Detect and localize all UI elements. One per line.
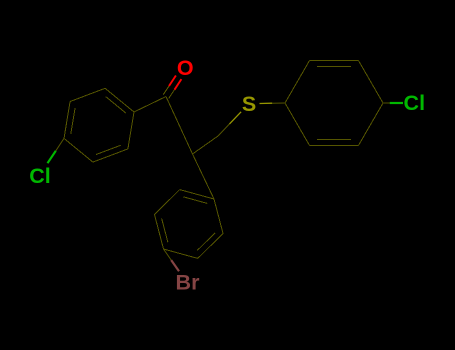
- ring3 aromatic inner line 1: [197, 233, 215, 251]
- ring1 aromatic inner line 3: [71, 108, 75, 134]
- svg-text:Cl: Cl: [404, 91, 426, 115]
- ring3 C-C bond 4: [155, 190, 180, 215]
- ring1 C-C bond 5: [105, 88, 134, 112]
- ring3 C-C bond 1: [198, 233, 223, 258]
- ring2 C-C bond 1: [310, 60, 359, 62]
- ring1 C-C bond 3: [64, 102, 70, 139]
- ring3 C-C bond 0: [214, 199, 223, 233]
- ring2 C-C bond 5: [285, 103, 310, 145]
- ring2 aromatic inner line 1: [317, 66, 351, 68]
- ring2 C-C bond 3: [359, 103, 384, 145]
- bond S-ring2: [272, 102, 285, 104]
- carbonyl C1=O line b (oxygen half): [175, 79, 182, 90]
- ring3 C-C bond 5: [180, 190, 214, 199]
- ring3 C-C bond 2: [164, 249, 198, 258]
- ring1 aromatic inner line 1: [96, 145, 121, 154]
- ring1 aromatic inner line 5: [106, 97, 126, 114]
- bond C3-S: [218, 124, 230, 136]
- bond ring3-Br: [164, 249, 172, 260]
- bond C1-C2: [166, 97, 193, 155]
- bond ring1-Cl: [56, 138, 64, 150]
- ring3 C-C bond 3: [155, 215, 164, 249]
- svg-text:Br: Br: [176, 271, 201, 295]
- ring2 C-C bond 2: [359, 61, 384, 103]
- ring1 C-C bond 2: [64, 138, 93, 162]
- ring2 C-C bond 0: [285, 61, 310, 103]
- carbonyl C1=O line a (oxygen half): [169, 76, 176, 87]
- carbonyl C1=O line b (carbon half): [169, 90, 175, 99]
- bond C1-ring1: [134, 97, 166, 113]
- ring1 C-C bond 0: [128, 112, 134, 149]
- ring2 C-C bond 4: [310, 144, 359, 146]
- ring3 aromatic inner line 5: [183, 197, 207, 204]
- ring1 C-C bond 4: [70, 88, 105, 101]
- ring3 aromatic inner line 3: [162, 218, 168, 242]
- bond ring2-Cl (chlorine half): [390, 102, 403, 104]
- bond C2-C3: [193, 136, 219, 154]
- ring1 C-C bond 1: [93, 149, 128, 162]
- svg-text:S: S: [242, 92, 256, 116]
- bond C2-ring3: [193, 154, 215, 199]
- carbonyl C1=O line a (carbon half): [163, 86, 169, 95]
- svg-text:O: O: [177, 56, 194, 80]
- bond ring2-Cl (carbon half): [383, 102, 390, 104]
- ring2 aromatic inner line 4: [317, 138, 351, 140]
- svg-text:Cl: Cl: [29, 164, 51, 188]
